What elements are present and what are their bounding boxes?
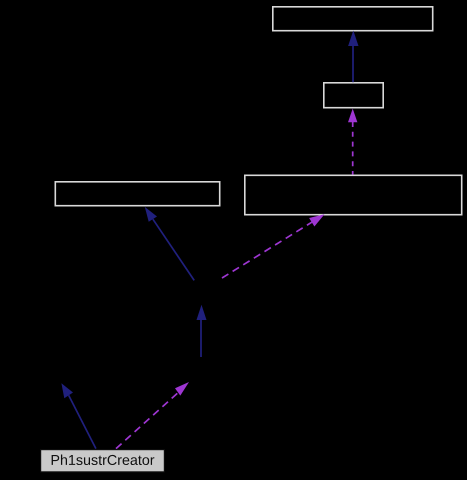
node box: top superclass (label hidden) [273,7,433,31]
node box: wide right class (label hidden, two-line) [245,175,462,214]
node box: Ph1sustrCreator (current class, gray fill) [41,450,165,472]
usage arrow B: wide right class -> small mid class (dashed purple) [348,109,357,175]
inheritance arrow A: small mid class -> top superclass (solid blue) [348,31,358,83]
usage arrow G: Ph1sustrCreator -> hidden lower node (dashed purple) [116,382,189,449]
node box: small mid class (label hidden) [324,83,383,108]
node box: left base class (label hidden) [55,182,219,206]
inheritance arrow C: hidden mid node -> left base class (solid blue) [145,207,194,281]
usage arrow D: hidden mid node -> wide right class (dashed purple) [222,214,325,278]
inheritance arrow F: Ph1sustrCreator -> hidden left node (solid blue) [61,383,96,448]
inheritance arrow E: hidden lower node -> hidden mid node (solid blue) [197,305,207,357]
